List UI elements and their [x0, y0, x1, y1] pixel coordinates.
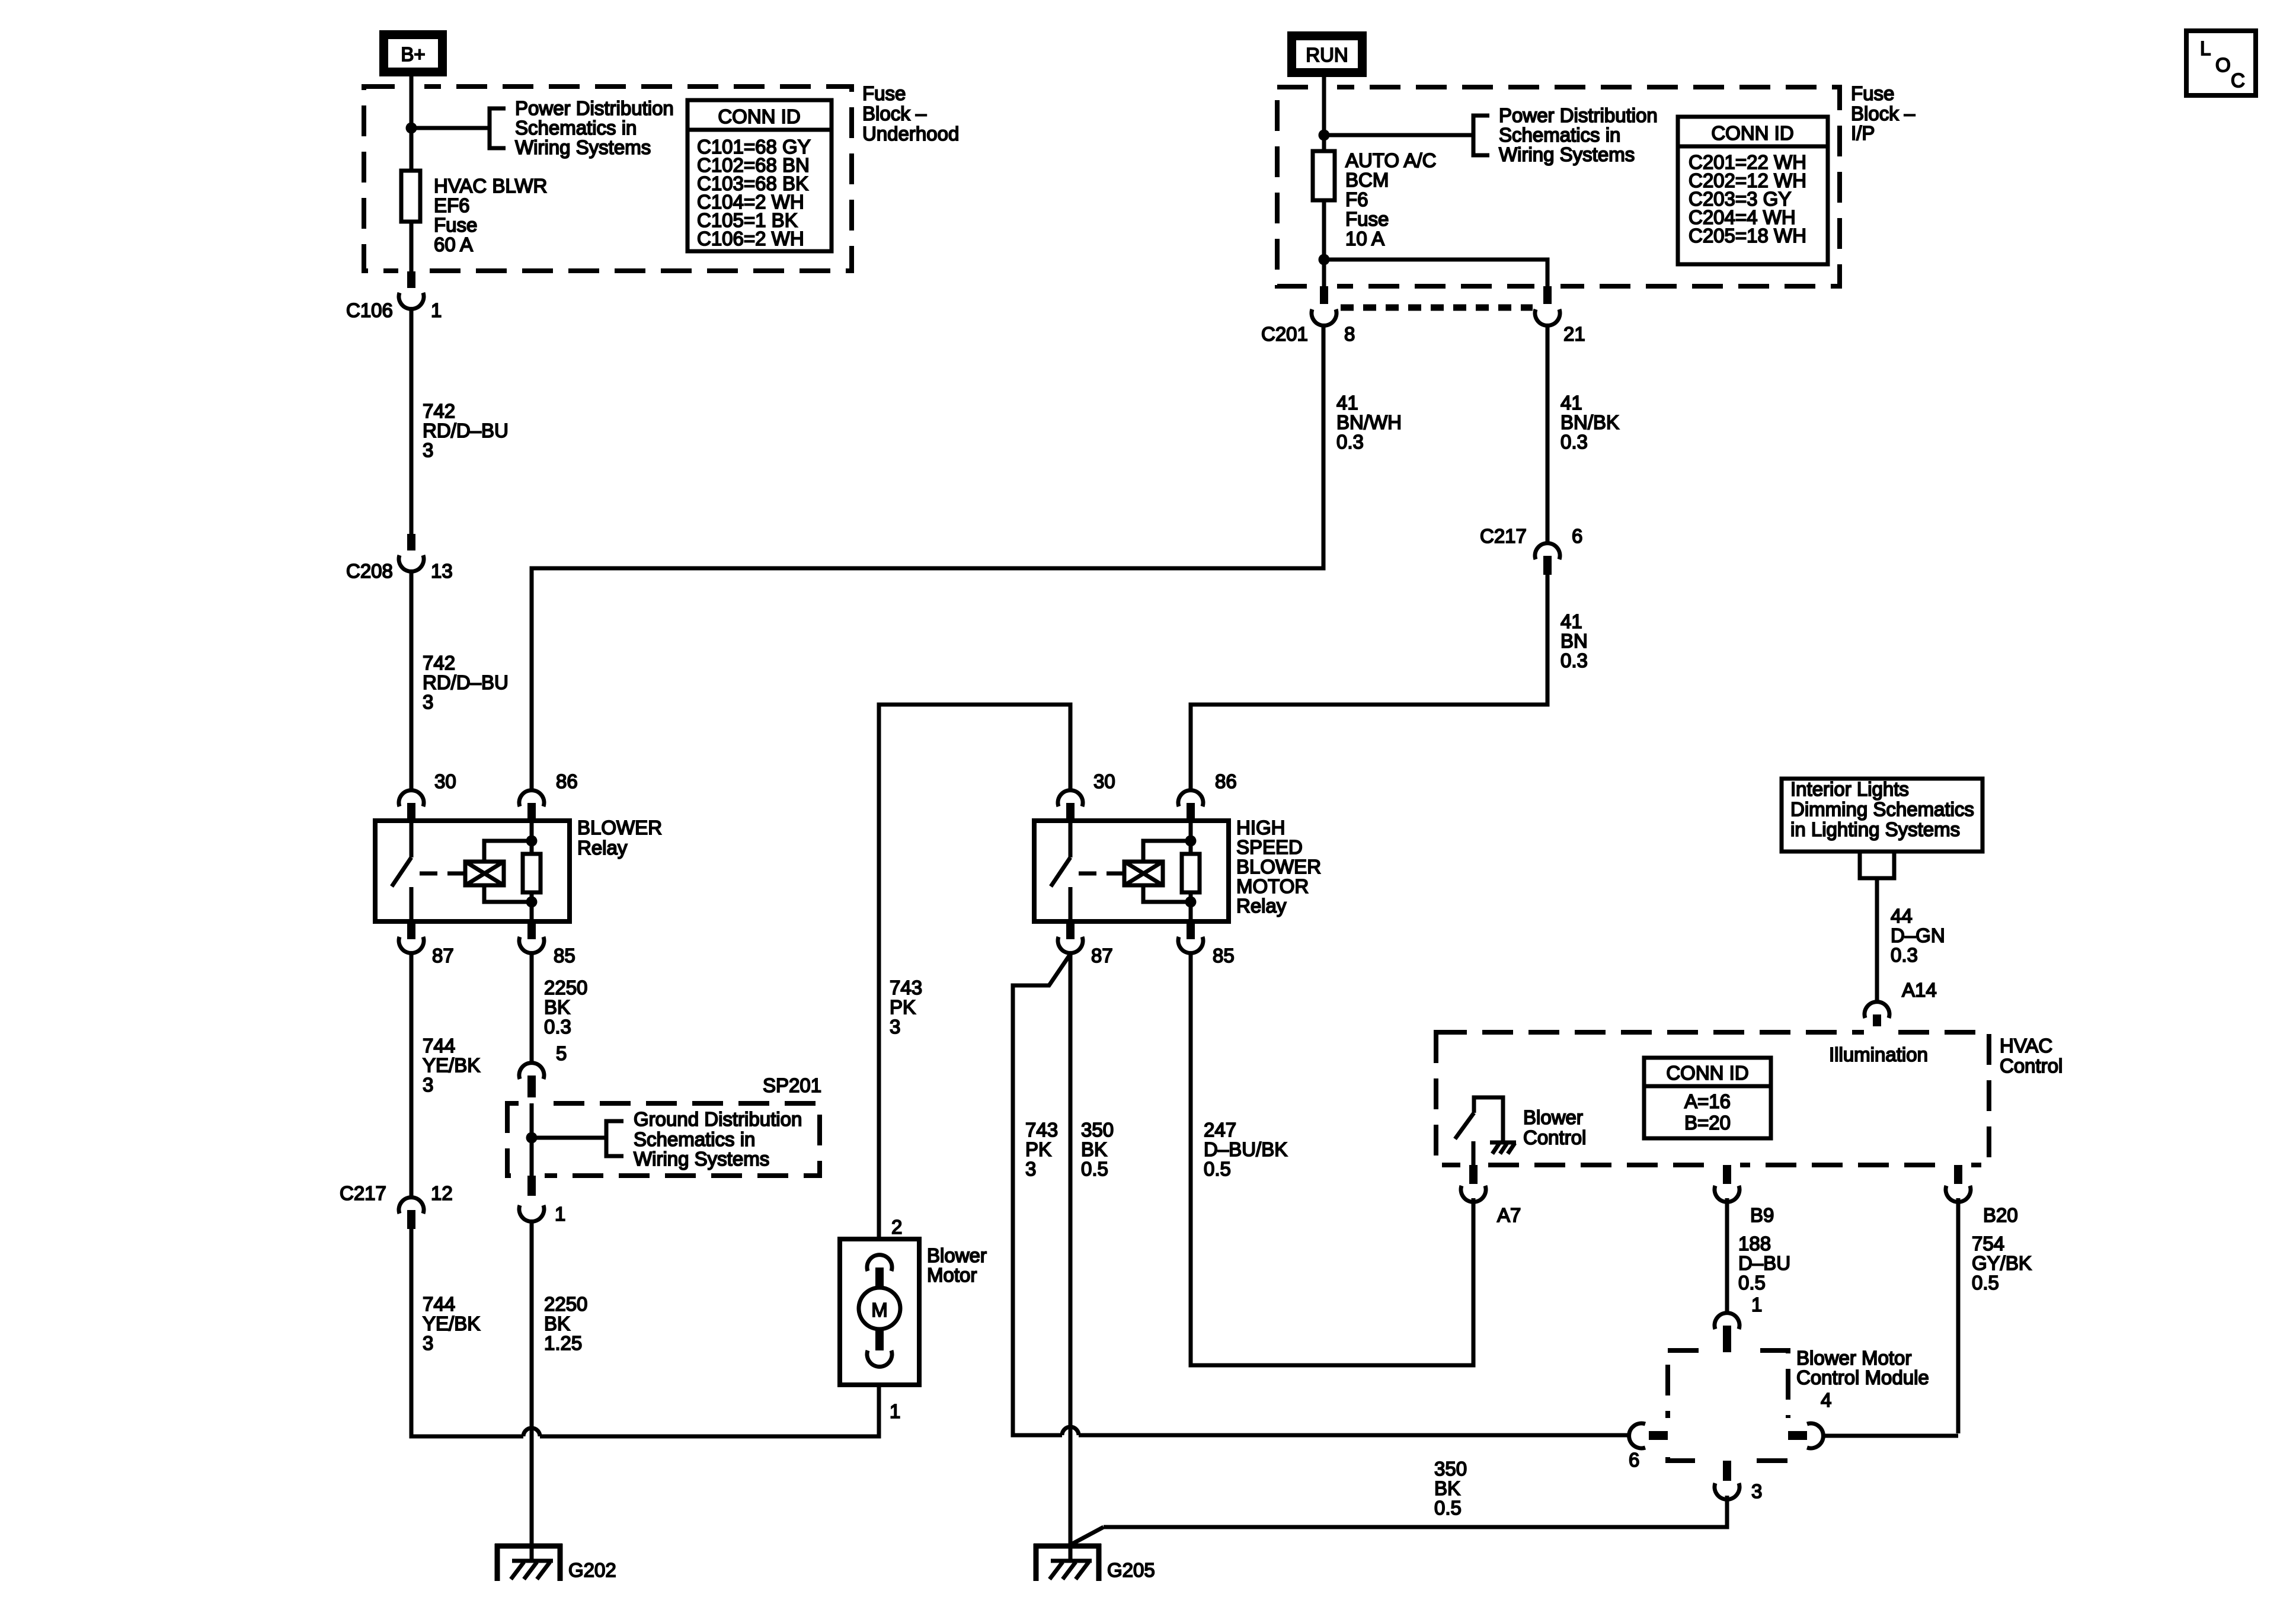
svg-text:BK: BK: [544, 1313, 570, 1334]
svg-text:Motor: Motor: [927, 1264, 977, 1286]
svg-text:3: 3: [423, 439, 433, 461]
svg-text:3: 3: [890, 1016, 900, 1038]
svg-text:Schematics in: Schematics in: [1499, 124, 1620, 146]
svg-text:C217: C217: [1480, 525, 1527, 547]
svg-text:350: 350: [1081, 1119, 1114, 1141]
svg-text:M: M: [871, 1299, 888, 1321]
svg-text:1: 1: [1751, 1294, 1762, 1315]
svg-text:EF6: EF6: [434, 194, 470, 216]
svg-text:60 A: 60 A: [434, 233, 473, 255]
svg-text:41: 41: [1336, 392, 1358, 414]
svg-text:A14: A14: [1902, 979, 1937, 1001]
svg-text:13: 13: [431, 560, 453, 582]
svg-text:85: 85: [554, 945, 575, 966]
svg-text:I/P: I/P: [1851, 122, 1875, 144]
svg-text:744: 744: [423, 1035, 455, 1057]
svg-text:B20: B20: [1983, 1204, 2018, 1226]
svg-text:Wiring Systems: Wiring Systems: [515, 136, 651, 158]
svg-text:12: 12: [431, 1182, 453, 1204]
svg-text:Power Distribution: Power Distribution: [515, 97, 674, 119]
svg-text:BN/WH: BN/WH: [1336, 411, 1402, 433]
svg-text:44: 44: [1891, 905, 1913, 927]
svg-text:C201: C201: [1261, 323, 1308, 345]
svg-text:C205=18 WH: C205=18 WH: [1689, 225, 1806, 247]
svg-text:2250: 2250: [544, 977, 587, 998]
svg-text:Blower: Blower: [1523, 1106, 1583, 1128]
svg-text:AUTO A/C: AUTO A/C: [1345, 149, 1436, 171]
svg-text:Control Module: Control Module: [1796, 1366, 1929, 1388]
svg-text:Fuse: Fuse: [1851, 82, 1894, 104]
svg-text:Relay: Relay: [1236, 895, 1287, 917]
svg-text:188: 188: [1738, 1233, 1771, 1254]
svg-text:0.5: 0.5: [1204, 1158, 1231, 1180]
svg-text:1: 1: [890, 1400, 900, 1422]
svg-text:SP201: SP201: [763, 1074, 821, 1096]
svg-text:350: 350: [1434, 1458, 1467, 1480]
svg-text:41: 41: [1560, 392, 1582, 414]
svg-text:3: 3: [423, 1332, 433, 1354]
svg-text:GY/BK: GY/BK: [1972, 1252, 2032, 1274]
svg-text:Control: Control: [2000, 1055, 2062, 1077]
svg-text:C: C: [2231, 69, 2245, 91]
svg-text:0.5: 0.5: [1434, 1497, 1462, 1519]
svg-text:Schematics in: Schematics in: [515, 117, 637, 139]
svg-text:742: 742: [423, 652, 455, 674]
svg-text:1.25: 1.25: [544, 1332, 582, 1354]
svg-text:743: 743: [1025, 1119, 1058, 1141]
svg-text:2: 2: [891, 1216, 902, 1238]
svg-text:1: 1: [431, 299, 442, 321]
svg-text:RD/D–BU: RD/D–BU: [423, 671, 509, 693]
svg-text:0.3: 0.3: [1560, 649, 1588, 671]
svg-text:6: 6: [1572, 525, 1582, 547]
svg-text:0.3: 0.3: [1560, 431, 1588, 453]
svg-text:30: 30: [1093, 770, 1115, 792]
svg-text:B=20: B=20: [1684, 1112, 1731, 1134]
svg-text:BK: BK: [1081, 1138, 1107, 1160]
svg-text:744: 744: [423, 1293, 455, 1315]
svg-text:21: 21: [1563, 323, 1585, 345]
svg-text:Wiring Systems: Wiring Systems: [634, 1148, 769, 1170]
svg-text:Block –: Block –: [1851, 103, 1916, 124]
svg-text:RD/D–BU: RD/D–BU: [423, 420, 509, 441]
svg-text:C217: C217: [340, 1182, 386, 1204]
svg-text:10 A: 10 A: [1345, 228, 1384, 249]
svg-text:0.3: 0.3: [1891, 944, 1918, 966]
svg-text:Schematics in: Schematics in: [634, 1128, 755, 1150]
svg-text:RUN: RUN: [1306, 44, 1348, 66]
svg-text:C208: C208: [346, 560, 393, 582]
svg-text:6: 6: [1629, 1449, 1639, 1471]
svg-text:0.3: 0.3: [544, 1016, 571, 1038]
svg-text:CONN ID: CONN ID: [1666, 1062, 1748, 1084]
svg-text:B9: B9: [1750, 1204, 1774, 1226]
svg-text:30: 30: [434, 770, 456, 792]
svg-text:D–BU: D–BU: [1738, 1252, 1790, 1274]
svg-text:D–GN: D–GN: [1891, 924, 1945, 946]
svg-text:Relay: Relay: [577, 837, 628, 859]
svg-text:Ground Distribution: Ground Distribution: [634, 1108, 802, 1130]
svg-text:G202: G202: [568, 1559, 616, 1581]
svg-text:247: 247: [1204, 1119, 1236, 1141]
svg-text:5: 5: [556, 1042, 567, 1064]
svg-text:85: 85: [1213, 945, 1235, 966]
svg-text:754: 754: [1972, 1233, 2004, 1254]
svg-text:C106: C106: [346, 299, 393, 321]
svg-text:BN: BN: [1560, 630, 1588, 652]
svg-text:Blower: Blower: [927, 1244, 987, 1266]
svg-text:1: 1: [555, 1203, 565, 1225]
svg-text:Block –: Block –: [862, 103, 927, 124]
svg-text:A7: A7: [1497, 1204, 1521, 1226]
svg-text:HVAC: HVAC: [2000, 1035, 2052, 1057]
svg-text:in Lighting Systems: in Lighting Systems: [1790, 818, 1960, 840]
svg-text:G205: G205: [1107, 1559, 1155, 1581]
svg-text:BK: BK: [1434, 1477, 1460, 1499]
svg-text:BLOWER: BLOWER: [577, 817, 662, 838]
svg-text:YE/BK: YE/BK: [423, 1313, 480, 1334]
svg-text:PK: PK: [1025, 1138, 1051, 1160]
svg-text:0.5: 0.5: [1738, 1272, 1766, 1294]
svg-text:BK: BK: [544, 996, 570, 1018]
svg-text:4: 4: [1821, 1389, 1831, 1411]
svg-text:BLOWER: BLOWER: [1236, 856, 1321, 878]
svg-text:Power Distribution: Power Distribution: [1499, 104, 1658, 126]
svg-text:O: O: [2215, 54, 2231, 76]
svg-text:3: 3: [1751, 1480, 1762, 1502]
svg-text:Illumination: Illumination: [1829, 1044, 1928, 1065]
svg-text:3: 3: [423, 691, 433, 713]
svg-text:Fuse: Fuse: [1345, 208, 1389, 230]
svg-text:HVAC BLWR: HVAC BLWR: [434, 175, 547, 197]
svg-text:743: 743: [890, 977, 922, 998]
svg-text:YE/BK: YE/BK: [423, 1054, 480, 1076]
svg-text:BN/BK: BN/BK: [1560, 411, 1619, 433]
svg-text:A=16: A=16: [1684, 1090, 1731, 1112]
svg-text:CONN ID: CONN ID: [1711, 122, 1793, 144]
svg-text:Control: Control: [1523, 1126, 1586, 1148]
svg-text:86: 86: [1215, 770, 1237, 792]
svg-text:2250: 2250: [544, 1293, 587, 1315]
svg-text:BCM: BCM: [1345, 169, 1389, 191]
svg-text:C106=2 WH: C106=2 WH: [697, 228, 804, 249]
svg-text:MOTOR: MOTOR: [1236, 875, 1309, 897]
svg-text:SPEED: SPEED: [1236, 836, 1303, 858]
svg-text:41: 41: [1560, 610, 1582, 632]
svg-text:0.5: 0.5: [1972, 1272, 1999, 1294]
svg-text:Fuse: Fuse: [862, 82, 906, 104]
svg-text:0.3: 0.3: [1336, 431, 1364, 453]
svg-text:Underhood: Underhood: [862, 123, 959, 145]
svg-text:L: L: [2200, 37, 2211, 59]
svg-text:3: 3: [423, 1074, 433, 1096]
svg-text:87: 87: [432, 945, 454, 966]
svg-text:HIGH: HIGH: [1236, 817, 1285, 838]
svg-text:Blower Motor: Blower Motor: [1796, 1347, 1911, 1369]
svg-text:B+: B+: [401, 43, 425, 65]
svg-text:Wiring Systems: Wiring Systems: [1499, 143, 1635, 165]
svg-text:86: 86: [556, 770, 578, 792]
svg-text:Interior Lights: Interior Lights: [1790, 778, 1909, 800]
svg-text:0.5: 0.5: [1081, 1158, 1108, 1180]
svg-text:F6: F6: [1345, 188, 1368, 210]
svg-text:87: 87: [1091, 945, 1113, 966]
svg-text:3: 3: [1025, 1158, 1036, 1180]
svg-text:D–BU/BK: D–BU/BK: [1204, 1138, 1287, 1160]
svg-text:Fuse: Fuse: [434, 214, 477, 236]
svg-text:PK: PK: [890, 996, 916, 1018]
svg-text:Dimming Schematics: Dimming Schematics: [1790, 798, 1974, 820]
svg-text:8: 8: [1344, 323, 1355, 345]
svg-text:CONN ID: CONN ID: [718, 105, 800, 127]
svg-text:742: 742: [423, 400, 455, 422]
